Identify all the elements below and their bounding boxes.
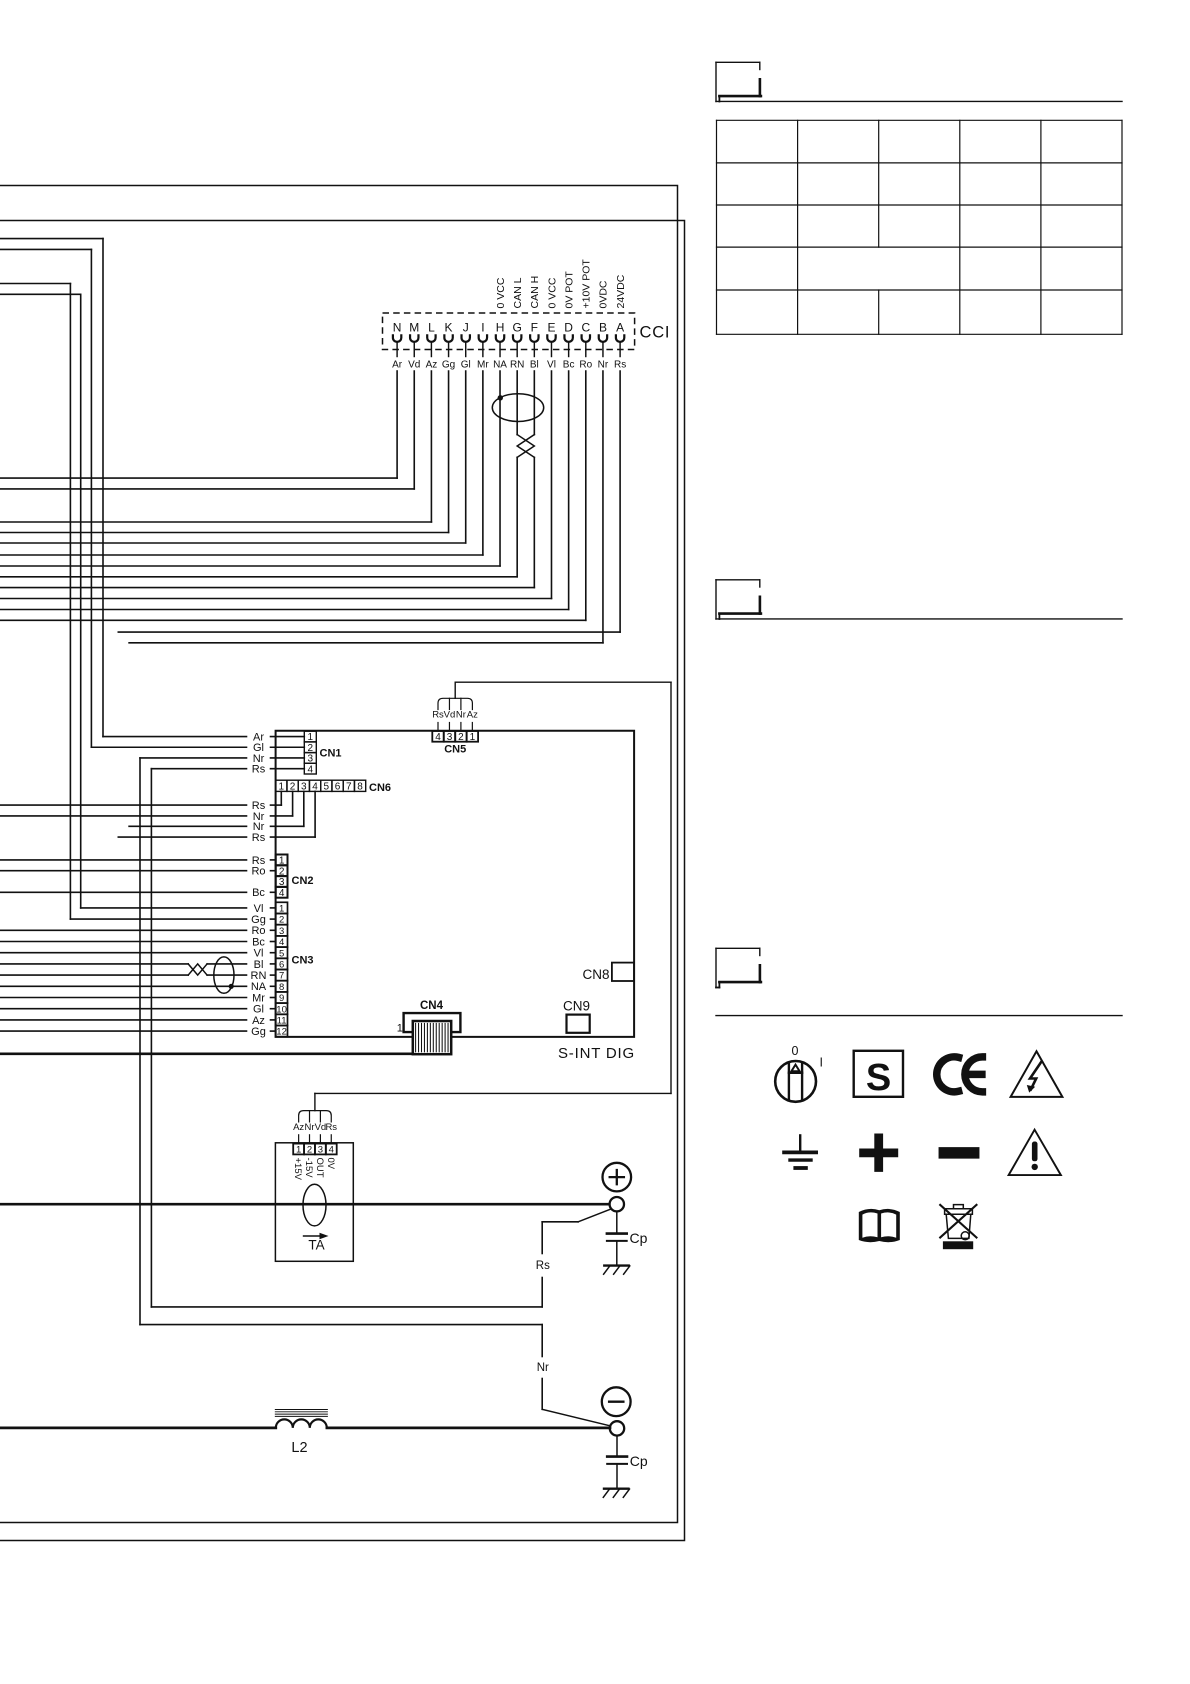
- svg-text:NA: NA: [251, 981, 267, 993]
- svg-text:1: 1: [296, 1145, 301, 1156]
- connector CN2: [276, 855, 288, 866]
- symbol plus polarity: [864, 1149, 894, 1158]
- svg-text:CN2: CN2: [292, 875, 314, 887]
- TA sense aperture ellipse: [303, 1184, 326, 1226]
- wire Ro from left edge to CN2 pin2: [0, 870, 247, 872]
- svg-text:7: 7: [346, 781, 352, 792]
- shield junction dot on NA wire: [229, 984, 234, 989]
- svg-text:CN8: CN8: [582, 967, 609, 982]
- svg-text:Az: Az: [426, 359, 438, 370]
- terminal minus stud: [610, 1421, 624, 1435]
- svg-text:Mr: Mr: [252, 992, 265, 1004]
- svg-text:Rs: Rs: [536, 1260, 550, 1272]
- svg-text:RN: RN: [510, 359, 524, 370]
- wire CCI pin C (Ro): [585, 371, 587, 620]
- svg-text:Az: Az: [467, 710, 478, 721]
- svg-text:0 VCC: 0 VCC: [546, 277, 558, 308]
- svg-text:Vl: Vl: [547, 359, 556, 370]
- shield ellipse around CAN pair: [492, 394, 543, 422]
- wire Gl from left edge to CN1 pin2: [0, 248, 91, 250]
- wire Bc from left edge to CN3 pin4: [0, 941, 247, 943]
- svg-text:Bc: Bc: [252, 887, 265, 899]
- svg-text:2: 2: [458, 732, 464, 743]
- svg-text:Nr: Nr: [456, 710, 466, 721]
- svg-text:E: E: [547, 321, 555, 335]
- svg-text:CN6: CN6: [369, 782, 391, 794]
- symbol earth ground: [799, 1135, 801, 1150]
- svg-text:0 VCC: 0 VCC: [495, 277, 507, 308]
- wire Rs from left edge to CN6 pin1: [280, 791, 282, 805]
- svg-text:Bl: Bl: [530, 359, 539, 370]
- wire CCI pin G (CAN L) with twist: [516, 371, 518, 435]
- symbol minus polarity: [944, 1147, 973, 1159]
- note icon 2: [715, 580, 717, 619]
- wire NA from left edge to CN3 pin8: [0, 985, 247, 987]
- svg-text:Rs: Rs: [252, 764, 266, 776]
- terminal minus symbol: [602, 1387, 631, 1416]
- svg-text:Cp: Cp: [630, 1230, 648, 1246]
- svg-text:12: 12: [276, 1027, 287, 1038]
- wire RN from left edge to CN3 pin7: [0, 974, 188, 976]
- svg-text:Bc: Bc: [252, 936, 265, 948]
- svg-text:Rs: Rs: [614, 359, 626, 370]
- svg-text:Vl: Vl: [254, 903, 264, 915]
- rule under note icon 2: [716, 618, 1122, 620]
- svg-text:Vl: Vl: [254, 948, 264, 960]
- wire CN5 bundle to TA bundle: [454, 682, 456, 698]
- wire Bc from left edge to CN2 pin4: [0, 891, 247, 893]
- svg-text:Bl: Bl: [254, 959, 264, 971]
- svg-text:Gl: Gl: [253, 1004, 264, 1016]
- svg-text:CN3: CN3: [292, 955, 314, 967]
- cable bundle above TA: [298, 1135, 300, 1144]
- svg-text:TA: TA: [308, 1238, 324, 1253]
- svg-text:F: F: [531, 321, 538, 335]
- svg-text:Rs: Rs: [252, 832, 266, 844]
- svg-text:S: S: [866, 1057, 891, 1099]
- wire Vl from left edge to CN3 pin5: [0, 952, 247, 954]
- svg-text:CN5: CN5: [444, 744, 466, 756]
- svg-text:2: 2: [307, 1145, 312, 1156]
- svg-text:NA: NA: [493, 359, 507, 370]
- svg-text:4: 4: [279, 888, 285, 899]
- wire Nr from left edge to CN6 pin2: [292, 791, 294, 816]
- symbol high voltage triangle: [1011, 1051, 1063, 1097]
- svg-text:Gl: Gl: [461, 359, 471, 370]
- connector CN5: [432, 731, 443, 742]
- capacitor Cp lower: [616, 1436, 618, 1456]
- inductor L2: [276, 1419, 327, 1428]
- TA connector cells: [293, 1144, 304, 1155]
- connector CN1: [304, 731, 316, 742]
- svg-text:CAN L: CAN L: [512, 277, 524, 308]
- svg-text:Vd: Vd: [408, 359, 420, 370]
- svg-text:CN4: CN4: [420, 1000, 444, 1012]
- wire CCI pin A (Rs): [619, 371, 621, 632]
- wire Ro from left edge to CN3 pin3: [0, 929, 247, 931]
- rule under note icon 1: [716, 100, 1122, 102]
- svg-text:Rs: Rs: [325, 1122, 337, 1133]
- svg-text:Mr: Mr: [477, 359, 489, 370]
- wire Rs from left edge to CN2 pin1: [0, 859, 247, 861]
- wire Ar from left edge to CN1 pin1: [0, 238, 103, 240]
- wire Az from left edge to CN3 pin11: [0, 1019, 247, 1021]
- svg-text:OUT: OUT: [314, 1158, 325, 1178]
- svg-text:RN: RN: [251, 970, 267, 982]
- wire CCI pin K (Gg): [448, 371, 450, 533]
- svg-text:C: C: [581, 321, 590, 335]
- wire negative bus: [0, 1427, 276, 1430]
- svg-text:4: 4: [435, 732, 441, 743]
- svg-text:4: 4: [329, 1145, 334, 1156]
- terminal plus symbol: [603, 1163, 632, 1192]
- wire CCI pin E (Vl): [550, 371, 552, 599]
- connector CCI dashed outline: [383, 313, 635, 350]
- note icon 3: [715, 948, 717, 987]
- svg-text:A: A: [616, 321, 624, 335]
- wire Nr CCI pin B to CN6 pin3: [303, 791, 305, 826]
- svg-text:L: L: [428, 321, 435, 335]
- svg-text:8: 8: [357, 781, 363, 792]
- svg-text:I: I: [820, 1056, 823, 1070]
- enclosure frame outer (machine boundary): [0, 221, 685, 1541]
- note icon 1: [715, 62, 717, 101]
- wire CCI pin J (Gl): [465, 371, 467, 543]
- svg-text:M: M: [409, 321, 419, 335]
- wire to CN4 ribbon: [0, 1053, 413, 1056]
- svg-text:Az: Az: [293, 1122, 304, 1133]
- connector CN8: [612, 963, 634, 981]
- wire CCI pin H (NA): [499, 371, 501, 566]
- wire Mr from left edge to CN3 pin9: [0, 997, 247, 999]
- wire CCI pin L (Az): [430, 371, 432, 522]
- svg-text:Ro: Ro: [579, 359, 592, 370]
- wire CCI pin B (Nr): [602, 371, 604, 643]
- svg-text:Ar: Ar: [392, 359, 403, 370]
- svg-text:Cp: Cp: [630, 1453, 648, 1469]
- wire CCI pin M (Vd): [413, 371, 415, 489]
- symbol WEEE crossed-out bin: [940, 1205, 976, 1240]
- svg-text:Nr: Nr: [537, 1362, 549, 1374]
- svg-text:Gg: Gg: [251, 1026, 266, 1038]
- svg-text:J: J: [463, 321, 469, 335]
- connector CN6: [276, 780, 287, 791]
- svg-text:Rs: Rs: [432, 710, 444, 721]
- svg-text:3: 3: [318, 1145, 323, 1156]
- svg-text:L2: L2: [291, 1440, 307, 1456]
- wire Rs CN1 pin4 to plus terminal: [151, 768, 246, 770]
- svg-text:H: H: [496, 321, 505, 335]
- wire Gg from left edge to CN3 pin2: [0, 283, 70, 285]
- wire Nr CN1 pin3 to minus terminal: [140, 757, 247, 759]
- svg-text:CN9: CN9: [563, 999, 590, 1014]
- wire Bl from left edge to CN3 pin6: [0, 963, 188, 965]
- wire CCI pin D (Bc): [568, 371, 570, 610]
- svg-text:G: G: [513, 321, 522, 335]
- revision table: [717, 119, 1123, 121]
- svg-text:Az: Az: [252, 1015, 265, 1027]
- svg-text:-15V: -15V: [303, 1158, 314, 1179]
- svg-text:Nr: Nr: [304, 1122, 314, 1133]
- wire CCI pin F (CAN H) with twist: [533, 371, 535, 435]
- svg-text:1: 1: [397, 1023, 403, 1035]
- rule 3: [716, 1015, 1122, 1017]
- svg-text:K: K: [445, 321, 453, 335]
- svg-text:Gg: Gg: [442, 359, 455, 370]
- svg-text:N: N: [393, 321, 402, 335]
- svg-text:B: B: [599, 321, 607, 335]
- capacitor Cp upper: [616, 1212, 618, 1233]
- connector CN9: [567, 1015, 590, 1033]
- svg-text:0V POT: 0V POT: [563, 271, 575, 309]
- chassis ground lower: [604, 1487, 628, 1489]
- symbol CE mark: [937, 1057, 959, 1092]
- symbol warning triangle: [1009, 1130, 1061, 1175]
- svg-text:0V: 0V: [325, 1158, 336, 1170]
- chassis ground upper: [604, 1264, 628, 1266]
- svg-text:+10V POT: +10V POT: [581, 259, 593, 309]
- CN4 ribbon cable: [413, 1021, 451, 1054]
- svg-text:0VDC: 0VDC: [598, 280, 610, 308]
- shield junction dot on pin H wire: [498, 395, 503, 400]
- svg-text:S-INT DIG: S-INT DIG: [558, 1045, 635, 1062]
- wire Gl from left edge to CN3 pin10: [0, 1008, 247, 1010]
- board S-INT DIG outline: [276, 731, 634, 1037]
- wire Vl from left edge to CN3 pin1: [0, 293, 81, 295]
- wire CCI pin I (Mr): [482, 371, 484, 555]
- symbol power switch: [775, 1061, 816, 1102]
- svg-text:6: 6: [335, 781, 341, 792]
- svg-text:Vd: Vd: [444, 710, 456, 721]
- symbol read manual book: [859, 1209, 900, 1242]
- svg-text:+15V: +15V: [292, 1158, 303, 1181]
- svg-text:D: D: [564, 321, 573, 335]
- svg-text:3: 3: [447, 732, 453, 743]
- svg-text:Ro: Ro: [251, 866, 265, 878]
- wire Rs CCI pin A to CN6 pin4: [314, 791, 316, 837]
- svg-text:24VDC: 24VDC: [615, 274, 627, 308]
- svg-text:Gg: Gg: [251, 914, 266, 926]
- svg-text:Bc: Bc: [563, 359, 575, 370]
- wire Gg from left edge to CN3 pin12: [0, 1030, 247, 1032]
- svg-text:CCI: CCI: [640, 324, 671, 342]
- wire CCI pin N (Ar): [396, 371, 398, 478]
- svg-text:I: I: [481, 321, 484, 335]
- svg-text:CN1: CN1: [320, 748, 342, 760]
- svg-text:CAN H: CAN H: [529, 276, 541, 309]
- svg-text:Ro: Ro: [251, 925, 265, 937]
- wire positive bus through TA: [0, 1203, 610, 1206]
- svg-text:5: 5: [324, 781, 330, 792]
- current transducer TA block: [275, 1143, 353, 1262]
- svg-text:0: 0: [792, 1044, 799, 1058]
- svg-text:4: 4: [308, 764, 314, 775]
- terminal plus stud: [610, 1197, 624, 1211]
- connector CN3: [276, 902, 288, 913]
- cable bundle above CN5: [437, 723, 439, 732]
- symbol S safety mark: [854, 1051, 903, 1097]
- svg-text:Nr: Nr: [598, 359, 609, 370]
- shield ellipse around CN3 pair: [214, 957, 234, 993]
- svg-text:1: 1: [470, 732, 476, 743]
- enclosure frame inner (machine boundary): [0, 186, 678, 1523]
